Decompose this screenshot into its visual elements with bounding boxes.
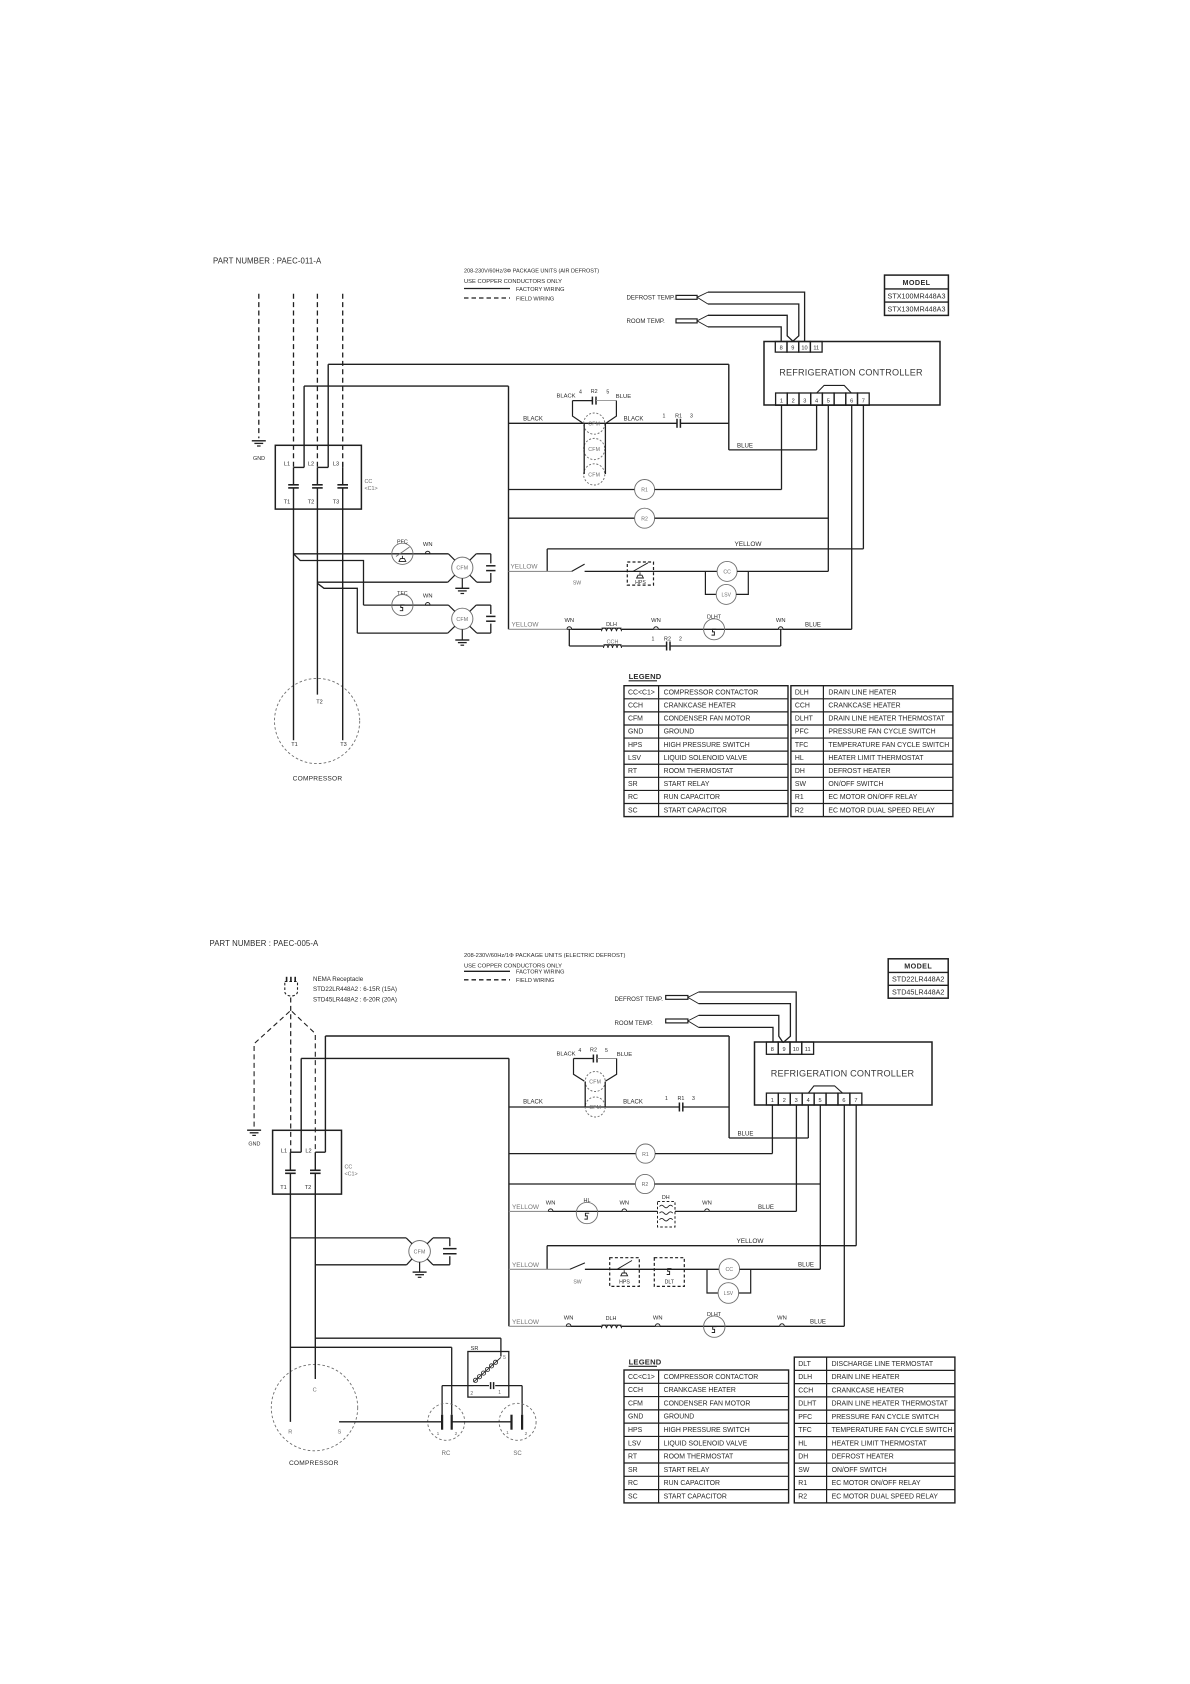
svg-text:LSV: LSV bbox=[628, 755, 641, 762]
svg-text:COMPRESSOR CONTACTOR: COMPRESSOR CONTACTOR bbox=[664, 1374, 759, 1381]
svg-text:RUN CAPACITOR: RUN CAPACITOR bbox=[664, 1480, 720, 1487]
svg-text:BLUE: BLUE bbox=[805, 622, 821, 629]
svg-text:HPS: HPS bbox=[635, 580, 646, 586]
svg-text:CCH: CCH bbox=[628, 1387, 643, 1394]
svg-text:1: 1 bbox=[665, 1096, 668, 1102]
svg-text:DLH: DLH bbox=[606, 1316, 617, 1322]
svg-text:TFC: TFC bbox=[798, 1427, 811, 1434]
svg-text:R1: R1 bbox=[641, 488, 648, 494]
svg-text:PART NUMBER : PAEC-005-A: PART NUMBER : PAEC-005-A bbox=[210, 939, 320, 948]
svg-text:DEFROST HEATER: DEFROST HEATER bbox=[828, 768, 890, 775]
svg-text:COMPRESSOR CONTACTOR: COMPRESSOR CONTACTOR bbox=[664, 689, 759, 696]
svg-text:CC: CC bbox=[345, 1165, 353, 1171]
svg-text:S: S bbox=[338, 1430, 342, 1436]
svg-text:HL: HL bbox=[795, 755, 804, 762]
svg-text:START CAPACITOR: START CAPACITOR bbox=[664, 807, 727, 814]
svg-text:R1: R1 bbox=[677, 1096, 684, 1102]
svg-text:CRANKCASE HEATER: CRANKCASE HEATER bbox=[828, 703, 900, 710]
svg-text:SR: SR bbox=[471, 1346, 479, 1352]
svg-text:REFRIGERATION CONTROLLER: REFRIGERATION CONTROLLER bbox=[771, 1069, 915, 1079]
svg-text:BLACK: BLACK bbox=[523, 417, 543, 423]
svg-text:5: 5 bbox=[827, 399, 830, 405]
svg-text:5: 5 bbox=[819, 1098, 822, 1104]
svg-text:4: 4 bbox=[579, 390, 582, 396]
svg-text:CFM: CFM bbox=[589, 1080, 601, 1086]
svg-text:2: 2 bbox=[455, 1431, 458, 1437]
svg-text:WN: WN bbox=[619, 1201, 629, 1207]
svg-text:<C1>: <C1> bbox=[365, 486, 378, 492]
svg-text:ROOM THERMOSTAT: ROOM THERMOSTAT bbox=[664, 1454, 734, 1461]
svg-text:CFM: CFM bbox=[628, 1400, 643, 1407]
svg-text:CCH: CCH bbox=[798, 1387, 813, 1394]
svg-text:T2: T2 bbox=[308, 500, 315, 506]
svg-text:208-230V/60Hz/3Φ PACKAGE UNITS: 208-230V/60Hz/3Φ PACKAGE UNITS (AIR DEFR… bbox=[464, 269, 599, 275]
svg-text:WN: WN bbox=[651, 618, 661, 624]
svg-text:GND: GND bbox=[628, 729, 643, 736]
svg-text:R: R bbox=[288, 1430, 292, 1436]
svg-text:MODEL: MODEL bbox=[904, 962, 932, 971]
svg-text:CONDENSER FAN MOTOR: CONDENSER FAN MOTOR bbox=[664, 1400, 751, 1407]
svg-text:HPS: HPS bbox=[628, 1427, 643, 1434]
svg-text:SR: SR bbox=[628, 1467, 638, 1474]
svg-text:GND: GND bbox=[253, 456, 265, 462]
svg-text:USE COPPER CONDUCTORS ONLY: USE COPPER CONDUCTORS ONLY bbox=[464, 279, 562, 285]
svg-text:RT: RT bbox=[628, 768, 638, 775]
svg-text:CRANKCASE HEATER: CRANKCASE HEATER bbox=[664, 1387, 736, 1394]
svg-text:FIELD WIRING: FIELD WIRING bbox=[516, 296, 554, 302]
svg-text:CFM: CFM bbox=[588, 447, 600, 453]
svg-text:LSV: LSV bbox=[628, 1440, 641, 1447]
svg-text:STD22LR448A2: STD22LR448A2 bbox=[892, 975, 944, 984]
svg-text:YELLOW: YELLOW bbox=[510, 563, 538, 570]
svg-text:LIQUID SOLENOID VALVE: LIQUID SOLENOID VALVE bbox=[664, 755, 748, 762]
svg-text:R1: R1 bbox=[675, 413, 682, 419]
svg-text:BLUE: BLUE bbox=[738, 1131, 754, 1138]
svg-text:ROOM TEMP.: ROOM TEMP. bbox=[627, 318, 666, 325]
svg-text:START RELAY: START RELAY bbox=[664, 1467, 710, 1474]
svg-text:DLH: DLH bbox=[606, 622, 617, 628]
svg-text:PFC: PFC bbox=[795, 729, 809, 736]
svg-text:2: 2 bbox=[783, 1098, 786, 1104]
svg-text:BLACK: BLACK bbox=[624, 417, 644, 423]
svg-text:PRESSURE FAN CYCLE SWITCH: PRESSURE FAN CYCLE SWITCH bbox=[828, 729, 935, 736]
svg-text:BLUE: BLUE bbox=[737, 443, 753, 450]
svg-text:CRANKCASE HEATER: CRANKCASE HEATER bbox=[832, 1387, 904, 1394]
svg-text:8: 8 bbox=[780, 346, 783, 352]
svg-text:SR: SR bbox=[628, 781, 638, 788]
svg-text:RC: RC bbox=[442, 1451, 451, 1457]
svg-text:R2: R2 bbox=[642, 1182, 649, 1188]
svg-text:HEATER LIMIT THERMOSTAT: HEATER LIMIT THERMOSTAT bbox=[828, 755, 924, 762]
svg-text:CFM: CFM bbox=[588, 422, 600, 428]
svg-text:CFM: CFM bbox=[414, 1249, 426, 1255]
svg-text:1: 1 bbox=[663, 413, 666, 419]
svg-text:EC MOTOR ON/OFF RELAY: EC MOTOR ON/OFF RELAY bbox=[828, 794, 917, 801]
svg-text:COMPRESSOR: COMPRESSOR bbox=[289, 1460, 339, 1467]
svg-text:R2: R2 bbox=[795, 807, 804, 814]
svg-text:DLHT: DLHT bbox=[707, 614, 722, 620]
svg-text:CRANKCASE HEATER: CRANKCASE HEATER bbox=[664, 703, 736, 710]
svg-text:DH: DH bbox=[662, 1195, 670, 1201]
svg-text:6: 6 bbox=[850, 399, 853, 405]
svg-text:DEFROST TEMP.: DEFROST TEMP. bbox=[615, 996, 664, 1003]
svg-text:DLT: DLT bbox=[798, 1361, 811, 1368]
svg-text:BLUE: BLUE bbox=[810, 1319, 826, 1326]
svg-text:STD45LR448A2 : 6-20R (20A): STD45LR448A2 : 6-20R (20A) bbox=[313, 996, 397, 1003]
svg-text:START CAPACITOR: START CAPACITOR bbox=[664, 1493, 727, 1500]
svg-text:LEGEND: LEGEND bbox=[629, 1357, 662, 1366]
svg-text:FACTORY WIRING: FACTORY WIRING bbox=[516, 970, 565, 976]
svg-text:YELLOW: YELLOW bbox=[512, 1262, 540, 1269]
svg-text:USE COPPER CONDUCTORS ONLY: USE COPPER CONDUCTORS ONLY bbox=[464, 964, 562, 970]
svg-text:1: 1 bbox=[506, 1430, 509, 1436]
svg-text:L3: L3 bbox=[333, 462, 339, 468]
svg-text:DLH: DLH bbox=[798, 1374, 812, 1381]
svg-text:L2: L2 bbox=[305, 1149, 311, 1155]
svg-text:BLACK: BLACK bbox=[623, 1100, 643, 1106]
svg-text:CFM: CFM bbox=[456, 566, 468, 572]
svg-text:R2: R2 bbox=[798, 1493, 807, 1500]
svg-text:CC: CC bbox=[726, 1267, 734, 1273]
svg-text:LEGEND: LEGEND bbox=[629, 672, 662, 681]
svg-text:DEFROST HEATER: DEFROST HEATER bbox=[832, 1454, 894, 1461]
svg-text:DH: DH bbox=[795, 768, 805, 775]
svg-text:R2: R2 bbox=[641, 516, 648, 522]
svg-text:11: 11 bbox=[805, 1047, 811, 1053]
svg-text:CFM: CFM bbox=[456, 617, 468, 623]
svg-text:GND: GND bbox=[628, 1414, 643, 1421]
svg-text:WN: WN bbox=[776, 618, 786, 624]
svg-text:6: 6 bbox=[842, 1098, 845, 1104]
svg-text:R2: R2 bbox=[590, 1048, 597, 1054]
svg-text:ON/OFF SWITCH: ON/OFF SWITCH bbox=[828, 781, 883, 788]
svg-text:DRAIN LINE HEATER: DRAIN LINE HEATER bbox=[828, 689, 896, 696]
svg-text:RC: RC bbox=[628, 1480, 638, 1487]
svg-text:3: 3 bbox=[795, 1098, 798, 1104]
svg-text:R1: R1 bbox=[798, 1480, 807, 1487]
svg-text:BLUE: BLUE bbox=[616, 394, 631, 400]
svg-text:TEMPERATURE FAN CYCLE SWITCH: TEMPERATURE FAN CYCLE SWITCH bbox=[832, 1427, 953, 1434]
svg-text:DH: DH bbox=[798, 1454, 808, 1461]
svg-text:2: 2 bbox=[792, 399, 795, 405]
svg-text:PFC: PFC bbox=[397, 540, 408, 546]
svg-text:T3: T3 bbox=[340, 742, 347, 748]
svg-text:C: C bbox=[313, 1388, 317, 1394]
svg-text:HPS: HPS bbox=[619, 1280, 630, 1286]
svg-text:1: 1 bbox=[652, 637, 655, 643]
svg-text:CC<C1>: CC<C1> bbox=[628, 689, 655, 696]
svg-text:BLUE: BLUE bbox=[798, 1261, 814, 1268]
svg-text:COMPRESSOR: COMPRESSOR bbox=[293, 776, 343, 783]
svg-text:FIELD WIRING: FIELD WIRING bbox=[516, 978, 554, 984]
svg-text:10: 10 bbox=[801, 346, 807, 352]
svg-text:HEATER LIMIT THERMOSTAT: HEATER LIMIT THERMOSTAT bbox=[832, 1440, 928, 1447]
svg-text:START RELAY: START RELAY bbox=[664, 781, 710, 788]
svg-text:WN: WN bbox=[546, 1201, 556, 1207]
svg-text:LIQUID SOLENOID VALVE: LIQUID SOLENOID VALVE bbox=[664, 1440, 748, 1447]
svg-text:EC MOTOR ON/OFF RELAY: EC MOTOR ON/OFF RELAY bbox=[832, 1480, 921, 1487]
svg-text:RT: RT bbox=[628, 1454, 638, 1461]
svg-text:STD22LR448A2 : 6-15R (15A): STD22LR448A2 : 6-15R (15A) bbox=[313, 986, 397, 993]
svg-text:DISCHARGE LINE TERMOSTAT: DISCHARGE LINE TERMOSTAT bbox=[832, 1361, 934, 1368]
svg-text:DLT: DLT bbox=[665, 1280, 675, 1286]
svg-text:3: 3 bbox=[692, 1096, 695, 1102]
svg-text:T1: T1 bbox=[284, 500, 291, 506]
svg-text:GND: GND bbox=[248, 1142, 260, 1148]
svg-text:PFC: PFC bbox=[798, 1414, 812, 1421]
svg-text:REFRIGERATION CONTROLLER: REFRIGERATION CONTROLLER bbox=[779, 368, 923, 378]
svg-text:CCH: CCH bbox=[628, 703, 643, 710]
svg-text:BLACK: BLACK bbox=[523, 1100, 543, 1106]
svg-text:HPS: HPS bbox=[628, 742, 643, 749]
svg-text:SW: SW bbox=[798, 1467, 810, 1474]
svg-text:BLUE: BLUE bbox=[758, 1204, 774, 1211]
svg-text:8: 8 bbox=[771, 1047, 774, 1053]
svg-text:SW: SW bbox=[573, 1280, 581, 1286]
svg-text:HL: HL bbox=[584, 1198, 591, 1204]
svg-text:CCH: CCH bbox=[795, 703, 810, 710]
svg-text:T2: T2 bbox=[305, 1185, 312, 1191]
svg-text:TFC: TFC bbox=[795, 742, 808, 749]
svg-text:MODEL: MODEL bbox=[903, 278, 931, 287]
svg-text:T3: T3 bbox=[333, 500, 340, 506]
svg-text:SW: SW bbox=[573, 581, 581, 587]
svg-text:SC: SC bbox=[628, 807, 638, 814]
svg-text:YELLOW: YELLOW bbox=[511, 622, 539, 629]
svg-text:YELLOW: YELLOW bbox=[736, 1238, 764, 1245]
svg-text:STX130MR448A3: STX130MR448A3 bbox=[888, 305, 946, 314]
svg-text:ROOM THERMOSTAT: ROOM THERMOSTAT bbox=[664, 768, 734, 775]
svg-text:PART NUMBER : PAEC-011-A: PART NUMBER : PAEC-011-A bbox=[213, 257, 322, 266]
svg-text:WN: WN bbox=[564, 1316, 574, 1322]
svg-text:LSV: LSV bbox=[721, 593, 731, 599]
svg-text:4: 4 bbox=[807, 1098, 810, 1104]
svg-text:WN: WN bbox=[702, 1201, 712, 1207]
svg-text:4: 4 bbox=[815, 399, 818, 405]
svg-text:YELLOW: YELLOW bbox=[512, 1319, 540, 1326]
svg-text:WN: WN bbox=[423, 593, 433, 599]
svg-text:GROUND: GROUND bbox=[664, 729, 695, 736]
svg-text:YELLOW: YELLOW bbox=[734, 541, 762, 548]
svg-text:DRAIN LINE HEATER THERMOSTAT: DRAIN LINE HEATER THERMOSTAT bbox=[828, 716, 945, 723]
svg-text:DLHT: DLHT bbox=[798, 1401, 817, 1408]
svg-text:PRESSURE FAN CYCLE SWITCH: PRESSURE FAN CYCLE SWITCH bbox=[832, 1414, 939, 1421]
svg-text:R1: R1 bbox=[642, 1152, 649, 1158]
svg-text:RUN CAPACITOR: RUN CAPACITOR bbox=[664, 794, 720, 801]
svg-text:LSV: LSV bbox=[724, 1291, 734, 1297]
svg-text:WN: WN bbox=[653, 1316, 663, 1322]
svg-text:L2: L2 bbox=[308, 462, 314, 468]
svg-text:L1: L1 bbox=[281, 1149, 287, 1155]
svg-text:10: 10 bbox=[793, 1047, 799, 1053]
svg-text:DLHT: DLHT bbox=[795, 716, 814, 723]
svg-text:HL: HL bbox=[798, 1440, 807, 1447]
svg-text:T1: T1 bbox=[291, 742, 298, 748]
svg-text:STX100MR448A3: STX100MR448A3 bbox=[888, 291, 946, 300]
svg-text:1: 1 bbox=[780, 399, 783, 405]
svg-text:7: 7 bbox=[862, 399, 865, 405]
svg-text:WN: WN bbox=[777, 1316, 787, 1322]
svg-text:SC: SC bbox=[513, 1451, 522, 1457]
svg-text:T1: T1 bbox=[280, 1185, 287, 1191]
svg-text:3: 3 bbox=[803, 399, 806, 405]
svg-text:3: 3 bbox=[690, 413, 693, 419]
svg-text:GROUND: GROUND bbox=[664, 1414, 695, 1421]
svg-text:L1: L1 bbox=[284, 462, 290, 468]
svg-text:TEMPERATURE FAN CYCLE SWITCH: TEMPERATURE FAN CYCLE SWITCH bbox=[828, 742, 949, 749]
svg-text:2: 2 bbox=[525, 1431, 528, 1437]
svg-text:BLACK: BLACK bbox=[556, 1052, 575, 1058]
svg-text:DRAIN LINE HEATER THERMOSTAT: DRAIN LINE HEATER THERMOSTAT bbox=[832, 1401, 949, 1408]
svg-text:DLH: DLH bbox=[795, 689, 809, 696]
svg-text:208-230V/60Hz/1Φ PACKAGE UNITS: 208-230V/60Hz/1Φ PACKAGE UNITS (ELECTRIC… bbox=[464, 953, 625, 959]
svg-text:CC: CC bbox=[723, 570, 731, 576]
svg-text:CC: CC bbox=[365, 479, 373, 485]
svg-text:CC<C1>: CC<C1> bbox=[628, 1374, 655, 1381]
svg-text:5: 5 bbox=[606, 390, 609, 396]
svg-text:11: 11 bbox=[813, 346, 819, 352]
svg-text:T2: T2 bbox=[316, 700, 323, 706]
svg-text:EC MOTOR DUAL SPEED RELAY: EC MOTOR DUAL SPEED RELAY bbox=[828, 807, 935, 814]
svg-text:ROOM TEMP.: ROOM TEMP. bbox=[615, 1020, 654, 1027]
svg-text:BLACK: BLACK bbox=[556, 393, 575, 399]
svg-text:NEMA Receptacle: NEMA Receptacle bbox=[313, 976, 364, 983]
svg-text:R1: R1 bbox=[795, 794, 804, 801]
svg-text:HIGH PRESSURE SWITCH: HIGH PRESSURE SWITCH bbox=[664, 1427, 750, 1434]
svg-text:CFM: CFM bbox=[589, 1105, 601, 1111]
svg-text:1: 1 bbox=[771, 1098, 774, 1104]
svg-text:ON/OFF SWITCH: ON/OFF SWITCH bbox=[832, 1467, 887, 1474]
svg-text:SW: SW bbox=[795, 781, 807, 788]
svg-text:R2: R2 bbox=[591, 389, 598, 395]
svg-text:CFM: CFM bbox=[628, 716, 643, 723]
svg-text:STD45LR448A2: STD45LR448A2 bbox=[892, 988, 944, 997]
svg-text:WN: WN bbox=[564, 618, 574, 624]
svg-text:BLUE: BLUE bbox=[617, 1052, 632, 1058]
svg-text:WN: WN bbox=[423, 542, 433, 548]
svg-text:5: 5 bbox=[503, 1355, 506, 1361]
svg-text:TFC: TFC bbox=[397, 591, 408, 597]
svg-text:2: 2 bbox=[470, 1391, 473, 1397]
svg-text:9: 9 bbox=[791, 346, 794, 352]
svg-text:SC: SC bbox=[628, 1493, 638, 1500]
svg-text:RC: RC bbox=[628, 794, 638, 801]
svg-text:CFM: CFM bbox=[588, 472, 600, 478]
svg-text:2: 2 bbox=[679, 637, 682, 643]
svg-text:5: 5 bbox=[605, 1048, 608, 1054]
svg-text:<C1>: <C1> bbox=[345, 1172, 358, 1178]
svg-text:FACTORY WIRING: FACTORY WIRING bbox=[516, 287, 565, 293]
svg-text:HIGH PRESSURE SWITCH: HIGH PRESSURE SWITCH bbox=[664, 742, 750, 749]
svg-text:1: 1 bbox=[437, 1431, 440, 1437]
svg-text:9: 9 bbox=[783, 1047, 786, 1053]
svg-text:DEFROST TEMP.: DEFROST TEMP. bbox=[627, 294, 676, 301]
svg-text:1: 1 bbox=[498, 1390, 501, 1396]
svg-text:DRAIN LINE HEATER: DRAIN LINE HEATER bbox=[832, 1374, 900, 1381]
svg-text:CONDENSER FAN MOTOR: CONDENSER FAN MOTOR bbox=[664, 716, 751, 723]
svg-text:EC MOTOR DUAL SPEED RELAY: EC MOTOR DUAL SPEED RELAY bbox=[832, 1493, 939, 1500]
svg-text:YELLOW: YELLOW bbox=[512, 1204, 540, 1211]
svg-text:4: 4 bbox=[578, 1048, 581, 1054]
svg-text:7: 7 bbox=[854, 1098, 857, 1104]
